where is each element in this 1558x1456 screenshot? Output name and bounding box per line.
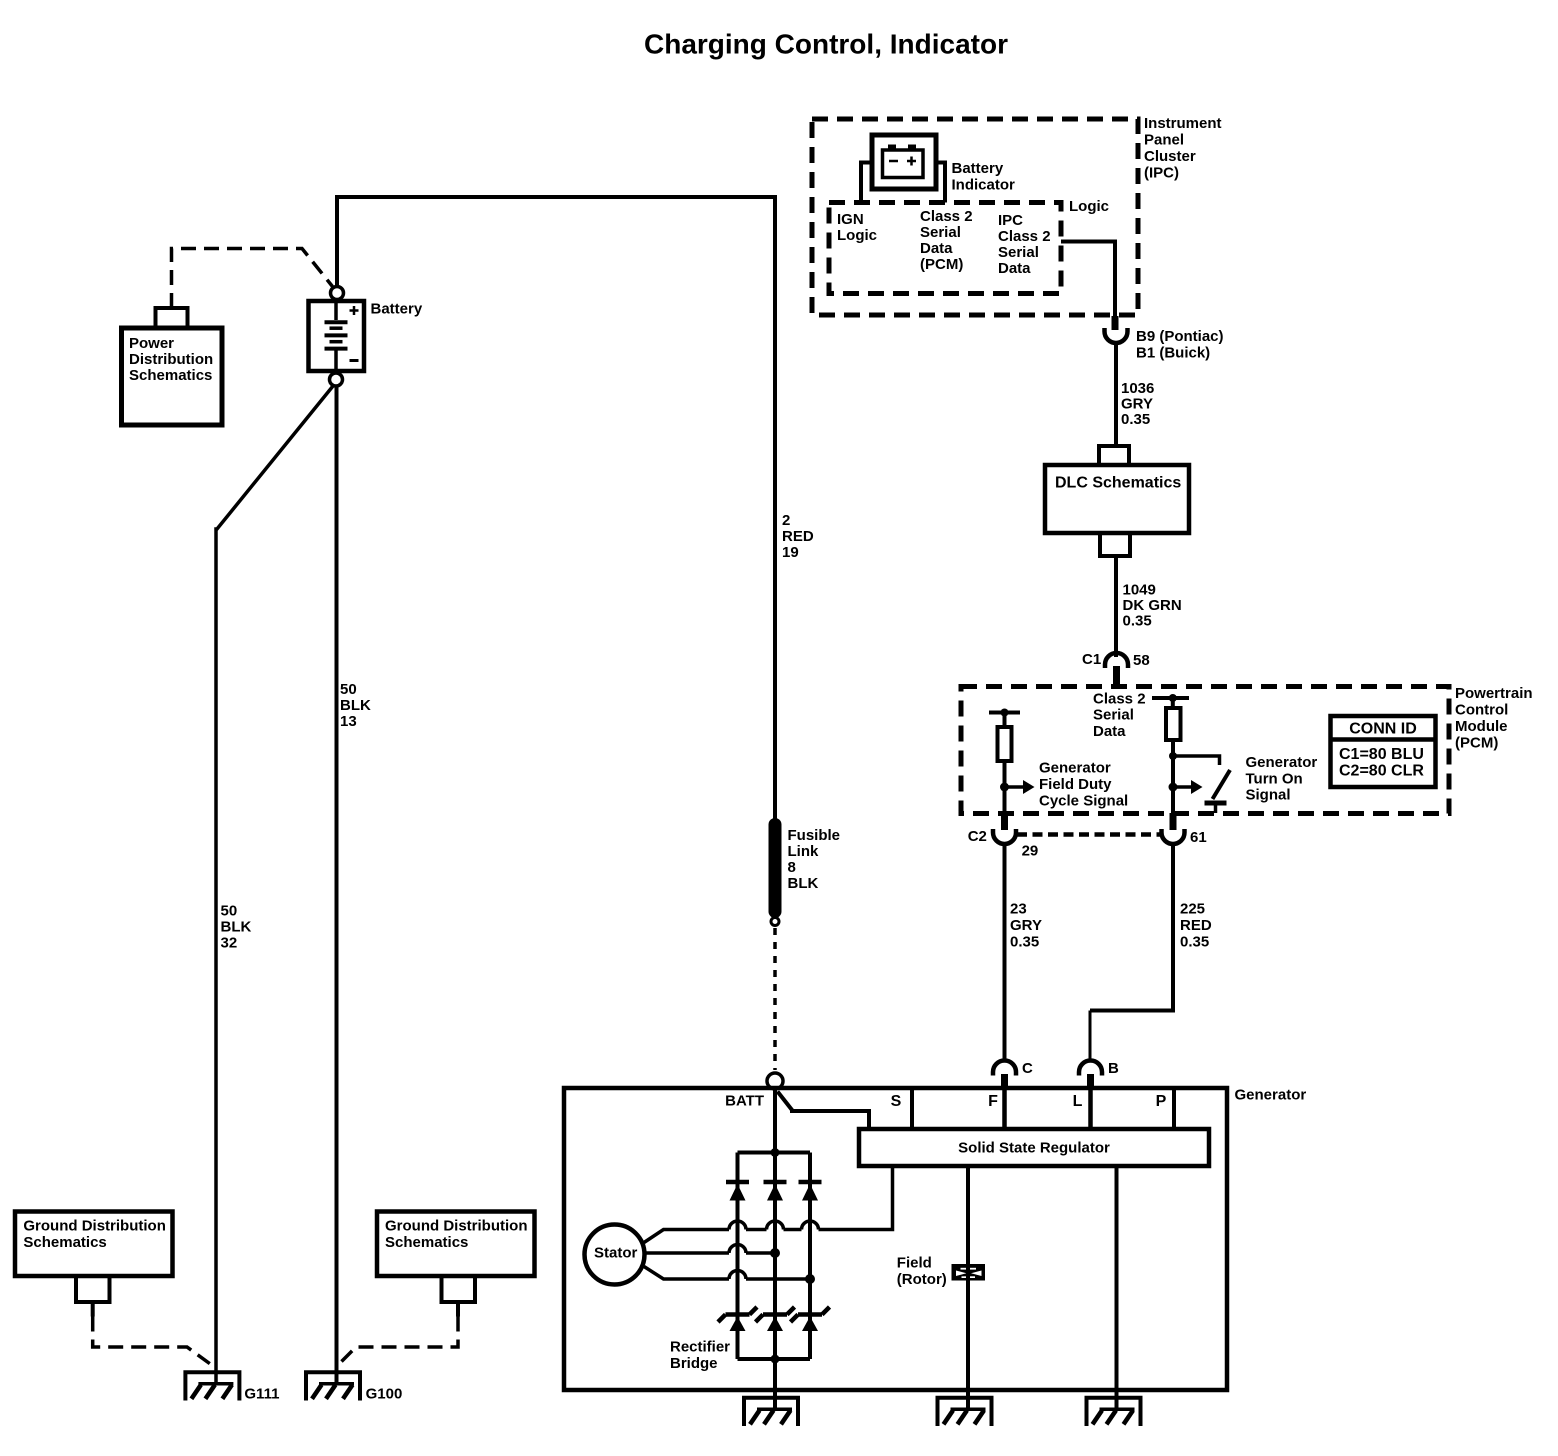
svg-text:Solid State Regulator: Solid State Regulator: [958, 1140, 1110, 1157]
wire: IPC class 2 serial data output: [1061, 242, 1115, 317]
DLC schematics box top tab: [1099, 446, 1129, 465]
svg-text:50: 50: [221, 903, 238, 920]
ground distribution schematics box (left): [15, 1212, 173, 1277]
svg-text:1049: 1049: [1123, 581, 1156, 598]
svg-text:0.35: 0.35: [1123, 612, 1152, 629]
DLC schematics box bottom tab: [1100, 533, 1130, 556]
svg-text:0.35: 0.35: [1180, 934, 1209, 951]
svg-text:BLK: BLK: [788, 875, 819, 892]
svg-text:B1 (Buick): B1 (Buick): [1136, 344, 1210, 361]
wire: field to ground: [966, 1281, 970, 1411]
rectifier bridge bottom bar: [738, 1357, 811, 1361]
stator phase 1 wire to regulator S sense: [644, 1230, 729, 1243]
diode D2: [764, 1180, 787, 1185]
avalanche diode D6: [798, 1312, 822, 1317]
svg-text:Schematics: Schematics: [23, 1234, 106, 1251]
junction phase 3 to bridge: [805, 1274, 815, 1284]
svg-text:CONN ID: CONN ID: [1349, 720, 1417, 737]
diode D3: [799, 1180, 822, 1185]
svg-text:Ground Distribution: Ground Distribution: [23, 1218, 165, 1235]
dashed connector face line C2-61: [1017, 832, 1160, 837]
junction: bridge bottom to ground bus: [771, 1355, 780, 1364]
svg-text:Bridge: Bridge: [670, 1355, 718, 1372]
rectifier bridge top bar: [738, 1151, 811, 1155]
wire 1049 DK GRN 0.35: [1114, 556, 1118, 657]
svg-text:BLK: BLK: [221, 919, 252, 936]
connector tab below left box: [76, 1276, 110, 1302]
svg-text:Data: Data: [998, 260, 1031, 277]
ground G111: [185, 1372, 239, 1400]
svg-text:Stator: Stator: [594, 1244, 638, 1261]
powertrain control module (PCM) dashed box: [961, 687, 1449, 814]
svg-text:Signal: Signal: [1246, 787, 1291, 804]
connector C2 pin 29: [1001, 813, 1008, 830]
svg-text:Logic: Logic: [837, 227, 877, 244]
svg-text:0.35: 0.35: [1121, 411, 1150, 428]
svg-text:DK GRN: DK GRN: [1123, 597, 1182, 614]
svg-text:B: B: [1108, 1060, 1119, 1077]
wire to switch contact: [1173, 756, 1220, 765]
battery: [309, 301, 365, 371]
svg-text:GRY: GRY: [1010, 917, 1042, 934]
ground distribution schematics box (right): [377, 1212, 535, 1277]
generator box: [564, 1088, 1227, 1390]
svg-text:Cycle Signal: Cycle Signal: [1039, 793, 1128, 810]
svg-text:C2=80 CLR: C2=80 CLR: [1339, 763, 1424, 780]
svg-text:Link: Link: [788, 843, 819, 860]
hop over bridge leg 1: [729, 1245, 746, 1254]
arrow: generator field duty cycle signal: [1005, 785, 1025, 789]
svg-text:23: 23: [1010, 900, 1027, 917]
battery negative terminal node: [330, 373, 343, 386]
wire below R1: [1003, 761, 1007, 813]
connector B (generator): [1079, 1061, 1102, 1076]
svg-text:(PCM): (PCM): [920, 256, 963, 273]
svg-text:Ground Distribution: Ground Distribution: [385, 1218, 527, 1235]
wire: battery indicator to IGN logic: [861, 163, 872, 203]
avalanche diode D4: [726, 1312, 750, 1317]
DLC schematics box: [1045, 465, 1189, 533]
svg-text:0.35: 0.35: [1010, 934, 1039, 951]
svg-text:L: L: [1073, 1093, 1083, 1110]
svg-text:Cluster: Cluster: [1144, 148, 1196, 165]
svg-text:(PCM): (PCM): [1455, 734, 1498, 751]
svg-text:Schematics: Schematics: [385, 1234, 468, 1251]
svg-text:29: 29: [1022, 843, 1039, 860]
dashed wire: power distribution to battery positive: [172, 249, 333, 309]
wire 23 GRY 0.35: [1003, 844, 1007, 1062]
wire: BATT bus through rectifier bridge to ground: [773, 1089, 777, 1410]
svg-text:RED: RED: [782, 528, 814, 545]
svg-text:61: 61: [1190, 829, 1207, 846]
battery positive terminal node: [331, 287, 344, 300]
ground (generator BATT bus): [744, 1398, 798, 1426]
svg-text:C1: C1: [1082, 651, 1101, 668]
svg-text:DLC Schematics: DLC Schematics: [1055, 475, 1181, 492]
arrow: generator turn on signal: [1173, 785, 1192, 789]
svg-text:F: F: [988, 1093, 998, 1110]
hop over bridge leg 2: [767, 1221, 784, 1230]
switch contact bar: [1205, 801, 1227, 806]
junction: field duty signal: [1000, 783, 1009, 792]
svg-text:GRY: GRY: [1121, 395, 1153, 412]
svg-text:Fusible: Fusible: [788, 827, 841, 844]
switch Q1 (generator turn on) blade: [1213, 770, 1231, 799]
svg-text:Generator: Generator: [1246, 754, 1318, 771]
dashed wire: right box to G100: [338, 1317, 458, 1366]
fusible link 8 BLK: [769, 818, 782, 918]
svg-text:Battery: Battery: [371, 300, 423, 317]
svg-text:(IPC): (IPC): [1144, 164, 1179, 181]
wire 1036 GRY 0.35: [1114, 343, 1118, 446]
svg-text:8: 8: [788, 859, 796, 876]
wire below R2: [1171, 740, 1175, 813]
svg-text:(Rotor): (Rotor): [897, 1271, 947, 1288]
svg-text:1036: 1036: [1121, 380, 1154, 397]
resistor R2 (turn on branch) top bar: [1152, 696, 1189, 700]
svg-text:Indicator: Indicator: [952, 176, 1016, 193]
svg-text:2: 2: [782, 512, 790, 529]
wire 225 RED 0.35: [1090, 844, 1173, 1011]
stator: [585, 1225, 645, 1285]
svg-text:Class 2: Class 2: [998, 228, 1051, 245]
svg-text:C2: C2: [968, 828, 987, 845]
svg-text:C: C: [1022, 1060, 1033, 1077]
dashed wire: left box to G111: [93, 1317, 213, 1367]
svg-text:Serial: Serial: [920, 224, 961, 241]
svg-text:Charging Control, Indicator: Charging Control, Indicator: [644, 28, 1008, 59]
junction: BATT bus to bridge top: [771, 1148, 780, 1157]
svg-text:Battery: Battery: [952, 160, 1004, 177]
connector pin 61: [1170, 813, 1177, 830]
svg-text:58: 58: [1133, 652, 1150, 669]
svg-text:Generator: Generator: [1039, 760, 1111, 777]
wire: BATT terminal into regulator: [778, 1092, 870, 1130]
avalanche diode D5: [763, 1312, 787, 1317]
junction on R2 top bar: [1169, 694, 1177, 702]
stator phase 3 wire: [644, 1267, 729, 1280]
wire: battery positive to top bus and down to fusible link (2 RED): [337, 197, 775, 820]
svg-text:B9 (Pontiac): B9 (Pontiac): [1136, 328, 1224, 345]
wire: battery indicator to class 2 serial data: [936, 163, 945, 203]
resistor R2: [1171, 698, 1175, 708]
hop over bridge leg 1: [729, 1271, 746, 1279]
ground G100: [306, 1372, 360, 1400]
CONN ID table: [1331, 716, 1436, 787]
svg-text:Class 2: Class 2: [1093, 690, 1146, 707]
svg-text:Field Duty: Field Duty: [1039, 776, 1112, 793]
svg-text:Serial: Serial: [998, 244, 1039, 261]
connector C1 pin 58: [1105, 653, 1128, 668]
svg-text:Panel: Panel: [1144, 131, 1184, 148]
svg-text:S: S: [891, 1093, 902, 1110]
IPC logic dashed box: [829, 203, 1061, 294]
ground (field): [938, 1398, 992, 1426]
wire: battery negative to G100 (50 BLK): [335, 386, 339, 1384]
svg-text:225: 225: [1180, 900, 1205, 917]
connector C (generator): [993, 1061, 1016, 1076]
svg-text:Control: Control: [1455, 701, 1508, 718]
svg-text:Generator: Generator: [1235, 1086, 1307, 1103]
svg-text:G100: G100: [366, 1385, 403, 1402]
svg-text:Powertrain: Powertrain: [1455, 685, 1533, 702]
svg-text:Serial: Serial: [1093, 707, 1134, 724]
svg-text:P: P: [1156, 1093, 1167, 1110]
svg-text:Class 2: Class 2: [920, 208, 973, 225]
dashed wire: fusible link to generator BATT: [773, 928, 777, 1070]
svg-text:BLK: BLK: [340, 697, 371, 714]
stator phase 2 wire: [645, 1251, 729, 1255]
connector tab below right box: [442, 1276, 476, 1302]
diode D1: [726, 1180, 749, 1185]
svg-text:13: 13: [340, 713, 357, 730]
wire: battery negative diagonal to G111 branch (50 BLK): [216, 386, 333, 1384]
resistor R1: [1003, 713, 1007, 728]
svg-text:Turn On: Turn On: [1246, 770, 1303, 787]
svg-text:Rectifier: Rectifier: [670, 1339, 730, 1356]
svg-text:Power: Power: [129, 335, 174, 352]
junction to switch: [1169, 752, 1177, 760]
svg-text:Instrument: Instrument: [1144, 115, 1222, 132]
svg-text:IPC: IPC: [998, 212, 1023, 229]
solid state regulator: [859, 1129, 1209, 1166]
svg-text:RED: RED: [1180, 917, 1212, 934]
connector tab on power distribution box: [156, 308, 188, 328]
svg-text:Distribution: Distribution: [129, 351, 213, 368]
svg-text:Module: Module: [1455, 718, 1508, 735]
junction phase 2 to bridge: [770, 1248, 780, 1258]
svg-text:32: 32: [221, 935, 238, 952]
svg-text:Data: Data: [920, 240, 953, 257]
svg-text:Field: Field: [897, 1255, 932, 1272]
connector B9 (Pontiac) B1 (Buick): [1105, 328, 1128, 343]
svg-text:50: 50: [340, 681, 357, 698]
rectifier bridge left leg: [736, 1153, 740, 1360]
svg-text:19: 19: [782, 544, 799, 561]
junction on R1 top bar: [1001, 709, 1009, 717]
power distribution schematics box: [122, 328, 223, 425]
svg-text:IGN: IGN: [837, 211, 864, 228]
svg-text:G111: G111: [244, 1385, 279, 1402]
wire: regulator F output to field: [966, 1166, 970, 1264]
svg-text:Schematics: Schematics: [129, 367, 212, 384]
svg-text:Data: Data: [1093, 723, 1126, 740]
junction: turn on signal: [1169, 783, 1178, 792]
svg-text:Logic: Logic: [1069, 198, 1109, 215]
wire: regulator to ground (right): [1115, 1166, 1119, 1410]
svg-text:C1=80 BLU: C1=80 BLU: [1339, 746, 1424, 763]
generator BATT ring terminal: [767, 1073, 783, 1089]
instrument panel cluster (IPC) dashed box: [812, 119, 1138, 315]
battery indicator lamp icon: [872, 135, 936, 189]
svg-text:BATT: BATT: [725, 1092, 764, 1109]
ground (regulator): [1087, 1398, 1141, 1426]
hop over bridge leg 3: [802, 1221, 819, 1230]
rectifier bridge right leg: [808, 1153, 812, 1360]
field (rotor) winding: [952, 1264, 986, 1281]
hop over bridge leg 1: [729, 1221, 746, 1230]
resistor R1 (field duty branch) top bar: [989, 711, 1020, 715]
